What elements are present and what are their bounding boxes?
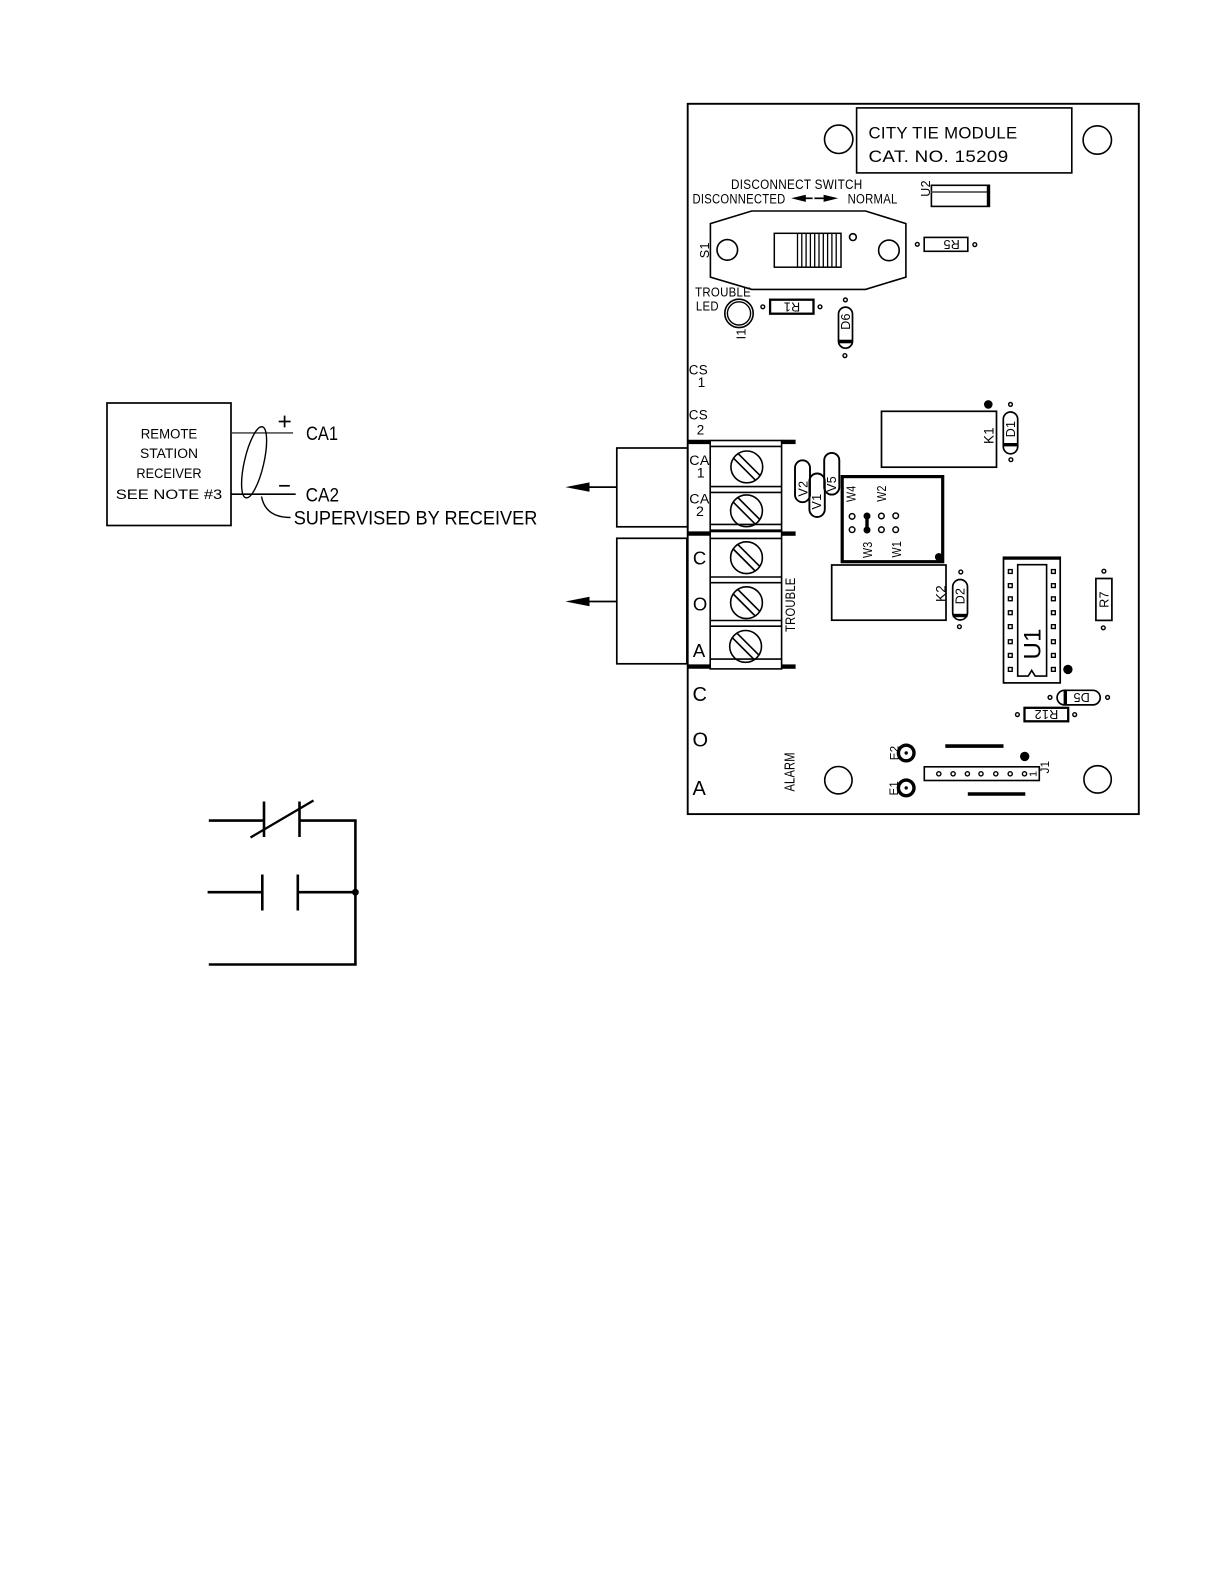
arrow to trouble terminals xyxy=(586,601,617,603)
supervision loop ellipse xyxy=(236,425,271,500)
svg-text:1: 1 xyxy=(698,375,706,390)
svg-text:SUPERVISED BY RECEIVER: SUPERVISED BY RECEIVER xyxy=(294,509,538,530)
svg-text:R1: R1 xyxy=(784,299,801,313)
U1 body with notch xyxy=(1018,565,1047,676)
svg-text:1: 1 xyxy=(1028,771,1040,777)
mounting hole bottom-right xyxy=(1084,766,1111,793)
NC contact right bar xyxy=(298,802,301,838)
screw CA1 xyxy=(731,451,763,483)
svg-text:J1: J1 xyxy=(1040,761,1052,774)
svg-text:C: C xyxy=(693,684,708,706)
screw C xyxy=(731,542,763,574)
field wiring box lower xyxy=(617,538,687,664)
svg-text:LED: LED xyxy=(696,300,719,314)
NO contact right bar xyxy=(296,875,299,911)
svg-text:TROUBLE: TROUBLE xyxy=(782,578,798,632)
S1 left hole xyxy=(717,240,738,261)
svg-text:CAT. NO. 15209: CAT. NO. 15209 xyxy=(869,147,1009,166)
header J1 xyxy=(924,767,1039,781)
arrow to CA terminals xyxy=(586,486,617,488)
svg-text:S1: S1 xyxy=(698,242,712,258)
svg-text:A: A xyxy=(693,778,707,800)
resistor R12 xyxy=(1025,708,1069,722)
mounting hole top-left xyxy=(825,125,853,153)
switch direction arrows xyxy=(791,195,838,202)
U1 socket pads left xyxy=(1008,570,1055,672)
svg-text:C: C xyxy=(693,548,707,569)
svg-text:E2: E2 xyxy=(889,746,901,761)
LED I1 xyxy=(725,299,753,327)
svg-text:R7: R7 xyxy=(1097,591,1111,608)
svg-text:K2: K2 xyxy=(933,585,948,602)
terminal block lower (C/O/A) xyxy=(710,532,781,669)
svg-text:W1: W1 xyxy=(889,541,904,558)
svg-text:V1: V1 xyxy=(810,494,824,510)
test point E1 xyxy=(898,780,914,796)
pad dot near J1 xyxy=(1020,752,1029,761)
IC socket U1 xyxy=(1004,557,1061,683)
wire middle rung right xyxy=(298,891,356,894)
board outline xyxy=(688,104,1139,814)
wire top rung left xyxy=(209,819,264,822)
trace below J1 xyxy=(968,792,1026,796)
relay K1 xyxy=(882,411,997,467)
svg-text:U1: U1 xyxy=(1020,628,1047,659)
svg-text:ALARM: ALARM xyxy=(782,752,798,791)
screw O xyxy=(731,587,763,619)
jumper block W1-W4 xyxy=(842,477,943,562)
svg-text:O: O xyxy=(693,729,709,751)
svg-text:1: 1 xyxy=(697,466,705,482)
wire right bus xyxy=(354,821,357,965)
svg-text:STATION: STATION xyxy=(140,446,198,462)
trace above J1 xyxy=(945,744,1003,748)
svg-text:D6: D6 xyxy=(839,313,853,330)
svg-text:2: 2 xyxy=(697,422,705,437)
svg-text:W4: W4 xyxy=(844,486,859,503)
svg-text:DISCONNECT SWITCH: DISCONNECT SWITCH xyxy=(731,177,863,192)
S1 right hole xyxy=(879,240,900,261)
svg-text:SEE NOTE #3: SEE NOTE #3 xyxy=(116,487,223,503)
screw CA2 xyxy=(731,495,763,527)
svg-text:R5: R5 xyxy=(943,237,960,251)
plus symbol xyxy=(279,421,291,423)
varistor V5 xyxy=(824,453,839,495)
jumper installed on W3 xyxy=(864,513,871,534)
NC contact left bar xyxy=(263,802,266,838)
svg-text:R12: R12 xyxy=(1034,707,1058,721)
svg-text:D1: D1 xyxy=(1004,421,1018,438)
minus symbol xyxy=(279,485,290,487)
diode D1 xyxy=(1003,412,1017,454)
NO contact left bar xyxy=(261,875,264,911)
wire bottom rung xyxy=(209,963,357,966)
svg-text:K1: K1 xyxy=(981,427,996,444)
svg-text:W2: W2 xyxy=(874,485,889,502)
switch S1 body outline xyxy=(710,211,906,289)
IC U2 xyxy=(931,185,989,206)
NC contact slash xyxy=(251,801,314,838)
svg-text:O: O xyxy=(693,593,708,614)
diode D6 xyxy=(839,307,853,348)
pad dot in jumper block xyxy=(935,553,943,561)
varistor V1 xyxy=(809,474,824,518)
svg-text:CA2: CA2 xyxy=(306,485,339,506)
mounting hole top-right xyxy=(1083,126,1111,154)
svg-text:A: A xyxy=(693,640,706,661)
svg-text:V5: V5 xyxy=(825,476,839,492)
screw A xyxy=(730,631,762,663)
svg-text:U2: U2 xyxy=(919,180,933,197)
S1 small index hole xyxy=(850,234,857,241)
svg-text:RECEIVER: RECEIVER xyxy=(136,466,201,482)
svg-text:I1: I1 xyxy=(734,328,748,339)
resistor R7 xyxy=(1096,579,1112,621)
mounting hole bottom-left xyxy=(825,767,852,794)
svg-text:W3: W3 xyxy=(860,542,875,559)
terminal block upper (CA1/CA2) xyxy=(710,441,781,531)
U1 socket pads right xyxy=(1052,570,1056,574)
wire CA1 xyxy=(231,432,293,434)
wire top rung right xyxy=(300,819,357,822)
S1 slider xyxy=(774,233,841,267)
field wiring box upper xyxy=(617,448,688,527)
svg-text:2: 2 xyxy=(696,504,704,520)
svg-text:CS: CS xyxy=(689,408,708,423)
svg-text:D2: D2 xyxy=(954,588,968,605)
resistor R5 xyxy=(924,237,968,251)
pad dot near U1 pin1 xyxy=(1063,665,1072,674)
relay K2 xyxy=(832,565,946,620)
leader curve to supervised note xyxy=(262,497,291,518)
diode D2 xyxy=(953,580,968,621)
svg-text:CITY TIE MODULE: CITY TIE MODULE xyxy=(869,124,1018,143)
wire middle rung left xyxy=(208,891,263,894)
svg-text:DISCONNECTED: DISCONNECTED xyxy=(693,192,786,207)
diode D5 xyxy=(1057,690,1100,705)
varistor V2 xyxy=(795,460,810,502)
test point E2 xyxy=(898,745,914,761)
svg-text:D5: D5 xyxy=(1073,690,1090,704)
svg-text:CA1: CA1 xyxy=(306,424,338,445)
resistor R1 xyxy=(770,300,813,314)
thick mounting bars of terminal strip xyxy=(688,442,796,667)
title block xyxy=(857,108,1072,173)
svg-text:NORMAL: NORMAL xyxy=(848,192,898,207)
svg-text:REMOTE: REMOTE xyxy=(141,427,198,443)
remote station receiver box xyxy=(107,403,231,526)
svg-text:TROUBLE: TROUBLE xyxy=(695,286,751,300)
svg-text:V2: V2 xyxy=(796,481,810,497)
wire CA2 xyxy=(231,493,296,495)
svg-text:E1: E1 xyxy=(889,781,901,796)
junction node xyxy=(352,889,359,896)
